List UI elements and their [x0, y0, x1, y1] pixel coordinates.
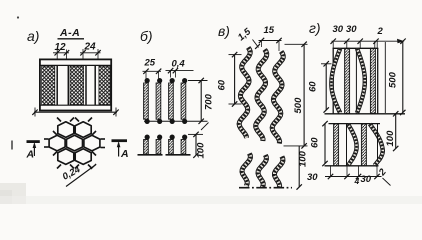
svg-text:100: 100: [298, 150, 309, 167]
svg-text:12: 12: [55, 42, 67, 53]
svg-text:700: 700: [204, 93, 215, 110]
svg-text:30: 30: [333, 24, 344, 35]
svg-text:500: 500: [388, 71, 399, 88]
svg-text:А: А: [26, 149, 35, 161]
svg-text:в): в): [218, 23, 230, 39]
svg-text:30: 30: [361, 174, 372, 185]
svg-text:2: 2: [377, 26, 384, 37]
svg-text:15: 15: [264, 25, 275, 36]
svg-text:г): г): [309, 20, 321, 36]
svg-text:А-А: А-А: [59, 27, 80, 39]
svg-text:0,4: 0,4: [172, 59, 186, 70]
svg-text:100: 100: [385, 130, 396, 147]
svg-text:б): б): [140, 28, 153, 44]
svg-text:60: 60: [310, 137, 321, 148]
svg-text:а): а): [27, 28, 39, 44]
svg-text:60: 60: [217, 79, 228, 90]
svg-text:30: 30: [346, 24, 357, 35]
svg-text:500: 500: [293, 97, 304, 114]
svg-text:25: 25: [144, 58, 156, 69]
svg-text:100: 100: [196, 142, 207, 159]
svg-text:4: 4: [354, 176, 360, 186]
svg-text:60: 60: [308, 81, 319, 92]
svg-text:30: 30: [307, 172, 318, 183]
svg-text:А: А: [120, 148, 129, 160]
